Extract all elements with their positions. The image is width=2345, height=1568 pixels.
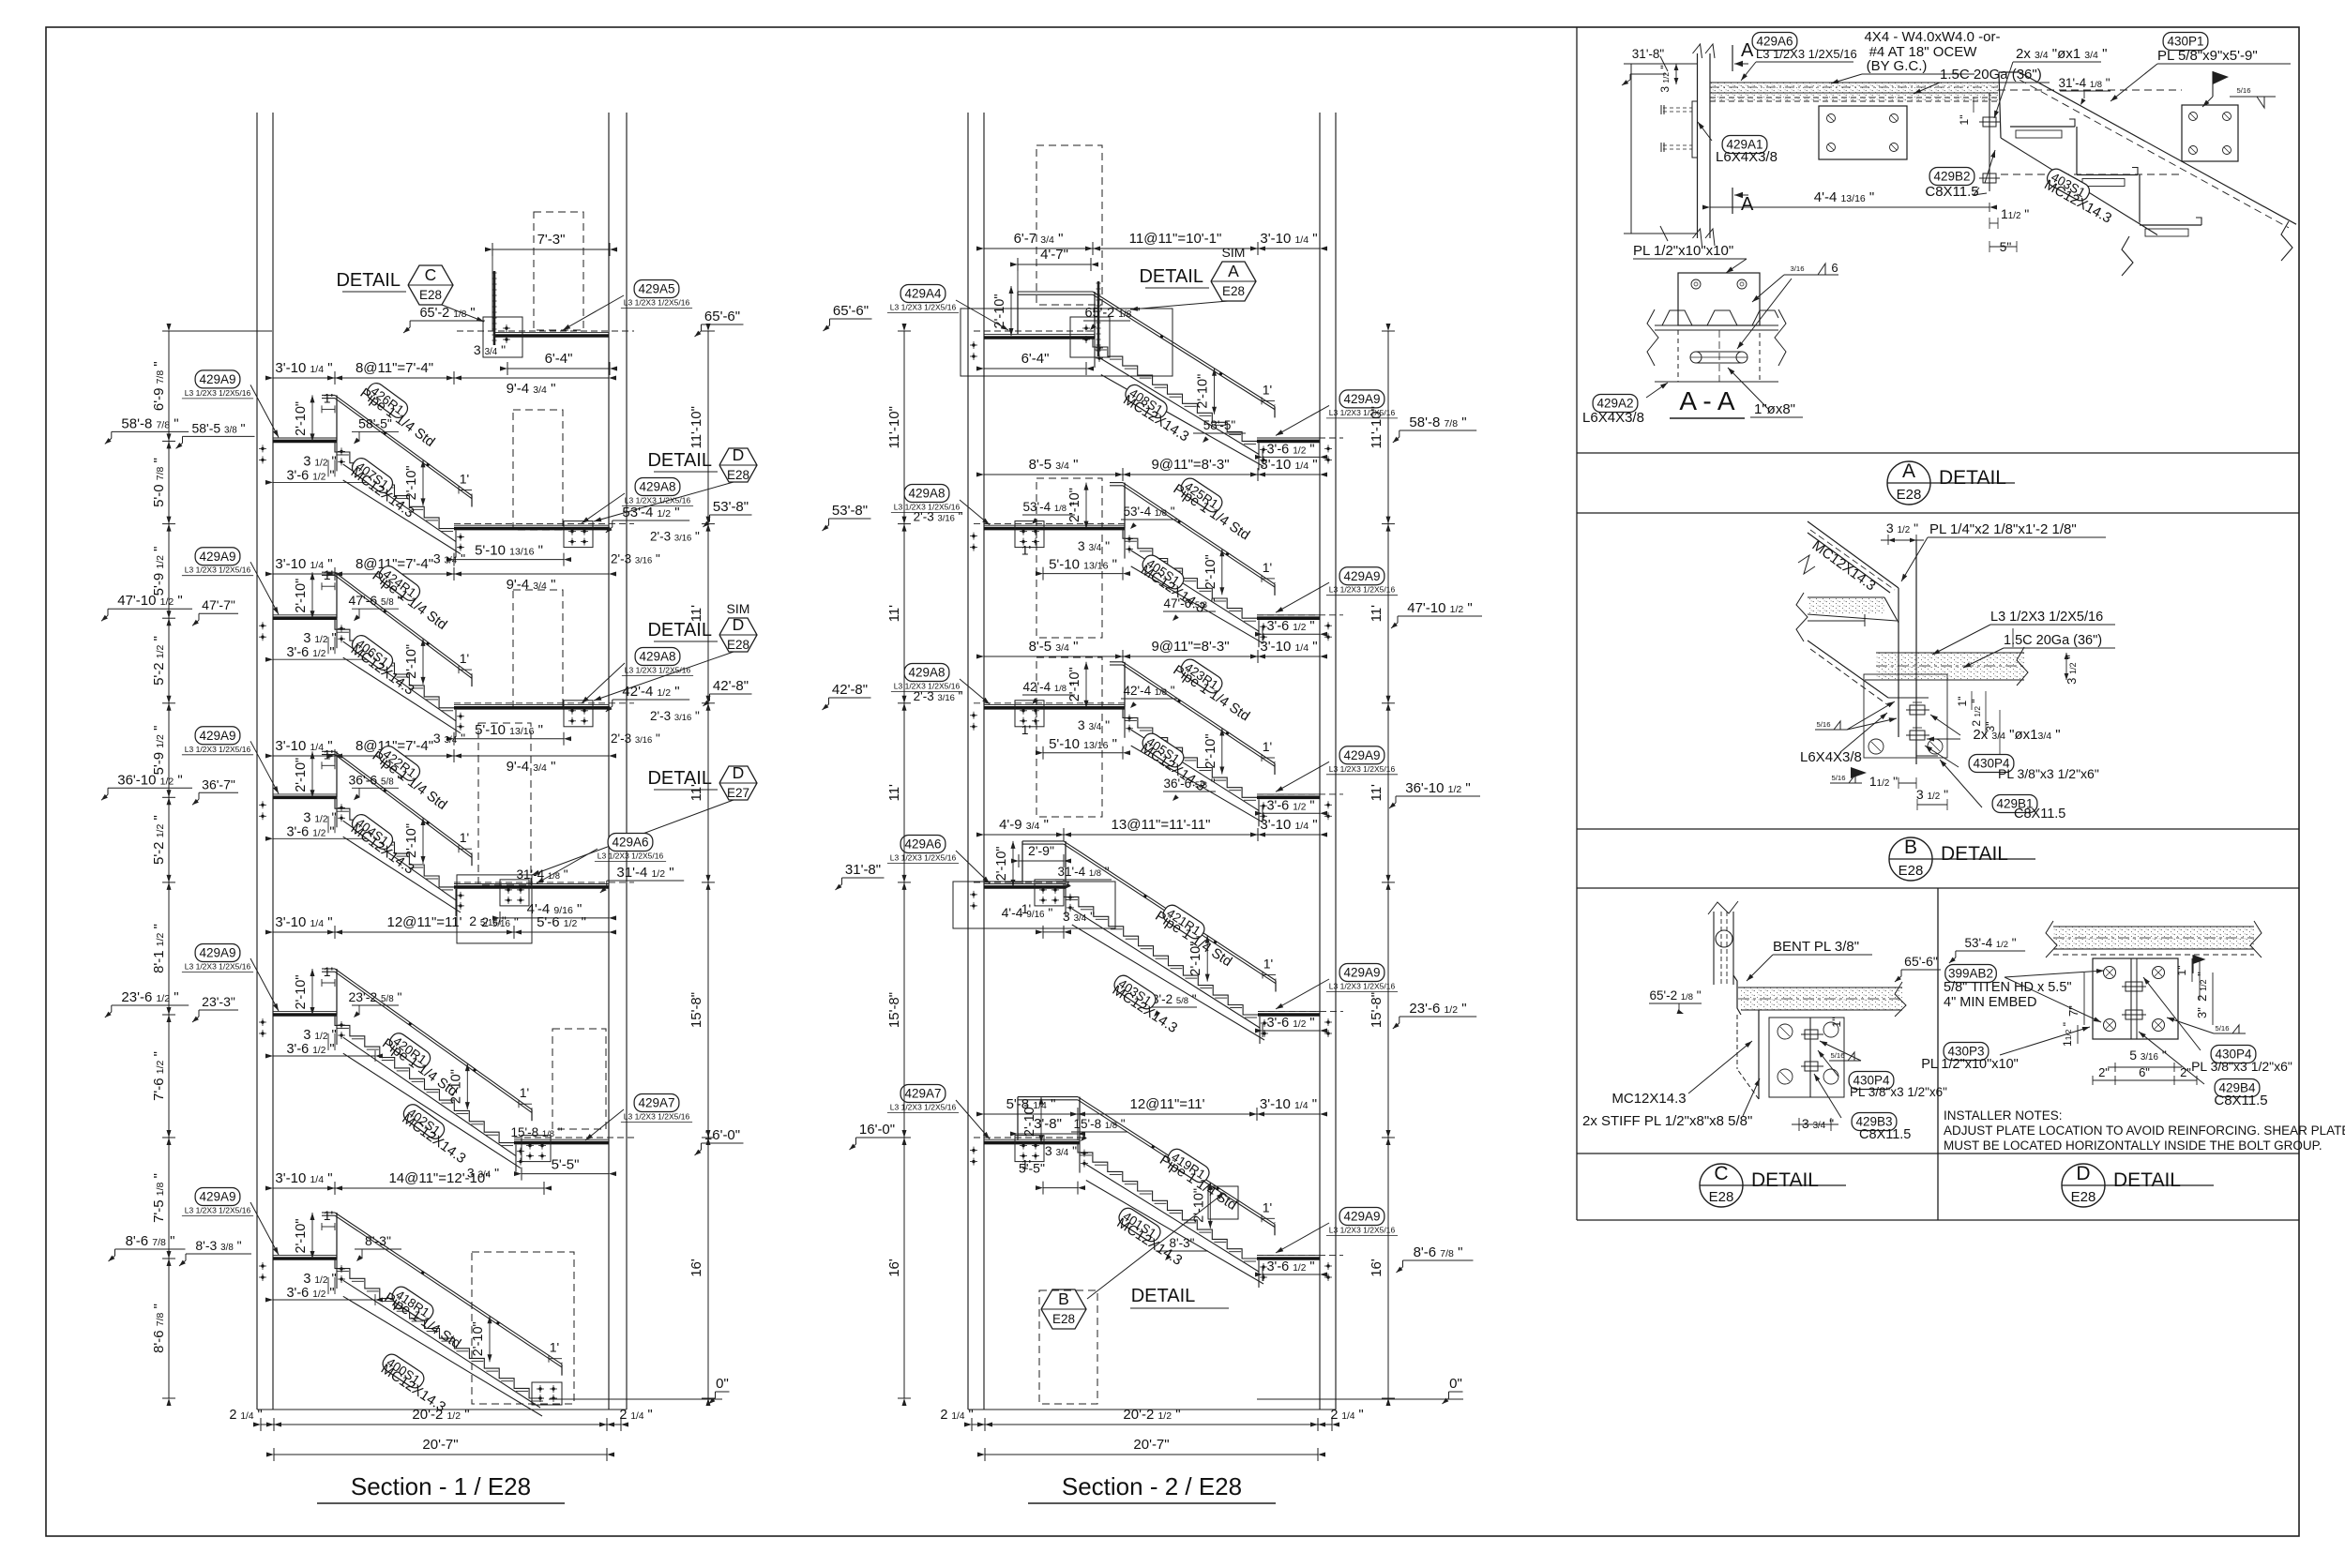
- svg-text:1": 1": [1956, 697, 1969, 707]
- svg-text:429A9: 429A9: [199, 550, 235, 564]
- svg-text:429A7: 429A7: [638, 1096, 674, 1110]
- svg-text:1': 1': [520, 1085, 529, 1100]
- svg-text:65'-2 1/8 ": 65'-2 1/8 ": [1649, 988, 1701, 1003]
- svg-text:1': 1': [550, 1340, 559, 1355]
- svg-text:16'-0": 16'-0": [704, 1127, 740, 1143]
- svg-text:E28: E28: [2071, 1189, 2096, 1205]
- svg-text:D: D: [733, 763, 745, 782]
- svg-text:31'-4 1/8 ": 31'-4 1/8 ": [516, 867, 567, 882]
- svg-text:429A9: 429A9: [199, 1190, 235, 1204]
- svg-text:MC12X14.3: MC12X14.3: [1611, 1091, 1686, 1107]
- svg-text:20'-2 1/2 ": 20'-2 1/2 ": [1123, 1407, 1180, 1423]
- svg-text:L3 1/2X3 1/2X5/16: L3 1/2X3 1/2X5/16: [624, 298, 690, 308]
- svg-text:2'-10": 2'-10": [404, 465, 419, 500]
- svg-text:B: B: [1904, 837, 1917, 858]
- svg-text:15'-8 1/8 ": 15'-8 1/8 ": [1073, 1117, 1125, 1131]
- svg-text:L3 1/2X3 1/2X5/16: L3 1/2X3 1/2X5/16: [625, 496, 691, 505]
- svg-text:31'-4 1/2 ": 31'-4 1/2 ": [616, 865, 673, 881]
- svg-text:42'-8": 42'-8": [832, 682, 868, 698]
- svg-text:9'-4 3/4 ": 9'-4 3/4 ": [507, 759, 556, 775]
- svg-text:53'-4 1/2 ": 53'-4 1/2 ": [622, 505, 679, 520]
- svg-text:47'-7": 47'-7": [202, 597, 235, 612]
- svg-text:429A8: 429A8: [639, 650, 675, 664]
- svg-text:14@11"=12'-10": 14@11"=12'-10": [388, 1170, 490, 1186]
- svg-text:L3 1/2X3 1/2X5/16: L3 1/2X3 1/2X5/16: [1756, 47, 1857, 61]
- svg-text:429A9: 429A9: [199, 946, 235, 960]
- svg-text:1': 1': [1021, 543, 1031, 558]
- svg-text:1': 1': [324, 964, 333, 979]
- svg-text:3'-10 1/4 ": 3'-10 1/4 ": [1260, 457, 1317, 473]
- svg-text:429A8: 429A8: [639, 480, 675, 494]
- svg-text:6'-9 7/8 ": 6'-9 7/8 ": [151, 361, 167, 411]
- svg-text:11': 11': [1369, 784, 1384, 802]
- svg-text:36'-10 1/2 ": 36'-10 1/2 ": [1405, 780, 1471, 796]
- svg-text:429A9: 429A9: [199, 372, 235, 386]
- svg-text:3'-6 1/2 ": 3'-6 1/2 ": [286, 645, 334, 660]
- svg-text:PL 1/2"x10"x10": PL 1/2"x10"x10": [1921, 1057, 2019, 1072]
- svg-text:58'-5 3/8 ": 58'-5 3/8 ": [191, 420, 245, 435]
- svg-text:D: D: [2076, 1163, 2090, 1184]
- svg-text:L3 1/2X3 1/2X5/16: L3 1/2X3 1/2X5/16: [1329, 408, 1396, 417]
- svg-text:3'-6 1/2 ": 3'-6 1/2 ": [286, 824, 334, 839]
- svg-text:3": 3": [2195, 1007, 2209, 1018]
- svg-text:11': 11': [688, 784, 704, 802]
- svg-text:3'-10 1/4 ": 3'-10 1/4 ": [1260, 231, 1317, 247]
- svg-text:C8X11.5: C8X11.5: [1925, 184, 1978, 200]
- svg-text:1': 1': [324, 1208, 333, 1223]
- svg-text:12@11"=11': 12@11"=11': [386, 914, 461, 930]
- svg-text:L3 1/2X3 1/2X5/16: L3 1/2X3 1/2X5/16: [185, 388, 251, 398]
- svg-text:A - A: A - A: [1679, 386, 1734, 415]
- svg-text:53'-8": 53'-8": [832, 503, 868, 519]
- svg-text:ADJUST PLATE LOCATION TO AVOID: ADJUST PLATE LOCATION TO AVOID REINFORCI…: [1944, 1123, 2345, 1138]
- svg-text:5/16: 5/16: [1817, 720, 1831, 729]
- svg-text:SIM: SIM: [1222, 245, 1246, 260]
- svg-text:11': 11': [688, 605, 704, 623]
- svg-text:429A6: 429A6: [612, 836, 648, 850]
- svg-text:1': 1': [460, 830, 469, 845]
- svg-text:11@11"=10'-1": 11@11"=10'-1": [1129, 231, 1222, 247]
- svg-text:23'-6 1/2 ": 23'-6 1/2 ": [1409, 1001, 1466, 1017]
- svg-text:16': 16': [886, 1259, 902, 1277]
- svg-text:3'-6 1/2 ": 3'-6 1/2 ": [286, 1042, 334, 1057]
- svg-text:5'-9 1/2 ": 5'-9 1/2 ": [151, 726, 167, 776]
- svg-text:2'-10": 2'-10": [404, 823, 419, 858]
- svg-text:2": 2": [2098, 1065, 2110, 1079]
- svg-text:C8X11.5: C8X11.5: [1859, 1127, 1911, 1142]
- svg-text:53'-4 1/2 ": 53'-4 1/2 ": [1964, 936, 2016, 950]
- svg-text:11'-10": 11'-10": [886, 406, 902, 448]
- svg-text:E28: E28: [1052, 1312, 1075, 1326]
- svg-text:2'-10": 2'-10": [294, 758, 309, 792]
- svg-text:11': 11': [1369, 605, 1384, 623]
- svg-text:1': 1': [1021, 722, 1031, 737]
- svg-text:E28: E28: [1709, 1189, 1734, 1205]
- svg-text:C8X11.5: C8X11.5: [2214, 1093, 2267, 1108]
- svg-text:2'-10": 2'-10": [294, 401, 309, 436]
- svg-text:6: 6: [1831, 261, 1838, 275]
- svg-text:15'-8": 15'-8": [688, 992, 704, 1028]
- svg-text:L3 1/2X3 1/2X5/16: L3 1/2X3 1/2X5/16: [185, 962, 251, 972]
- svg-text:5'-2 1/2 ": 5'-2 1/2 ": [151, 636, 167, 686]
- svg-text:INSTALLER NOTES:: INSTALLER NOTES:: [1944, 1108, 2063, 1123]
- svg-text:42'-4 1/8 ": 42'-4 1/8 ": [1022, 680, 1074, 694]
- svg-text:DETAIL: DETAIL: [1941, 843, 2008, 865]
- svg-text:4'-9 3/4 ": 4'-9 3/4 ": [999, 817, 1049, 833]
- svg-text:Section - 2 / E28: Section - 2 / E28: [1062, 1472, 1242, 1500]
- svg-text:16': 16': [688, 1259, 704, 1277]
- svg-text:42'-4 1/2 ": 42'-4 1/2 ": [622, 684, 679, 700]
- svg-text:B: B: [1058, 1289, 1069, 1308]
- svg-text:36'-7": 36'-7": [202, 776, 235, 792]
- svg-text:5/8" TITEN HD x 5.5": 5/8" TITEN HD x 5.5": [1944, 980, 2072, 995]
- svg-text:0": 0": [716, 1376, 729, 1392]
- svg-text:11'-10": 11'-10": [1369, 406, 1384, 448]
- svg-text:0": 0": [1449, 1376, 1462, 1392]
- svg-text:5'-5": 5'-5": [552, 1157, 580, 1173]
- svg-text:65'-2 1/8 ": 65'-2 1/8 ": [419, 306, 475, 321]
- svg-text:3'-10 1/4 ": 3'-10 1/4 ": [275, 360, 332, 376]
- svg-text:31'-4 1/8 ": 31'-4 1/8 ": [1057, 865, 1109, 879]
- svg-text:D: D: [733, 445, 745, 464]
- svg-text:5'-8 1/4 ": 5'-8 1/4 ": [1006, 1096, 1056, 1112]
- svg-text:6'-4": 6'-4": [545, 351, 573, 367]
- svg-text:1': 1': [1263, 382, 1272, 397]
- svg-text:429A7: 429A7: [904, 1087, 941, 1101]
- svg-text:L6X4X3/8: L6X4X3/8: [1582, 410, 1644, 426]
- svg-text:31'-8": 31'-8": [1632, 47, 1665, 61]
- svg-text:2'-10": 2'-10": [471, 1321, 486, 1356]
- svg-text:2 1/2 ": 2 1/2 ": [1970, 699, 1983, 726]
- svg-text:DETAIL: DETAIL: [1939, 467, 2006, 489]
- svg-text:5'-0 7/8 ": 5'-0 7/8 ": [151, 458, 167, 507]
- svg-text:4X4 - W4.0xW4.0 -or-: 4X4 - W4.0xW4.0 -or-: [1864, 29, 2000, 45]
- svg-text:5/16: 5/16: [2216, 1024, 2230, 1033]
- svg-text:429A6: 429A6: [904, 837, 941, 852]
- svg-text:L3 1/2X3 1/2X5/16: L3 1/2X3 1/2X5/16: [1329, 585, 1396, 595]
- svg-text:L3 1/2X3 1/2X5/16: L3 1/2X3 1/2X5/16: [624, 1112, 690, 1122]
- svg-text:430P1: 430P1: [2167, 35, 2203, 49]
- svg-text:2'-10": 2'-10": [994, 846, 1009, 881]
- svg-text:3/16: 3/16: [1791, 264, 1805, 273]
- svg-text:L3 1/2X3 1/2X5/16: L3 1/2X3 1/2X5/16: [185, 1206, 251, 1215]
- svg-text:3 1/2 ": 3 1/2 ": [1658, 65, 1672, 92]
- svg-text:3'-8": 3'-8": [1034, 1116, 1062, 1132]
- svg-text:429A9: 429A9: [199, 729, 235, 743]
- svg-text:429B2: 429B2: [1933, 170, 1970, 184]
- svg-text:3'-10 1/4 ": 3'-10 1/4 ": [275, 556, 332, 572]
- svg-text:5'-9 1/2 ": 5'-9 1/2 ": [151, 546, 167, 596]
- svg-text:9@11"=8'-3": 9@11"=8'-3": [1151, 457, 1229, 473]
- svg-text:3'-10 1/4 ": 3'-10 1/4 ": [275, 1170, 332, 1186]
- svg-text:8'-5 3/4 ": 8'-5 3/4 ": [1029, 639, 1079, 655]
- svg-text:8'-5 3/4 ": 8'-5 3/4 ": [1029, 457, 1079, 473]
- svg-text:PL 1/2"x10"x10": PL 1/2"x10"x10": [1633, 243, 1733, 259]
- svg-text:47'-10 1/2 ": 47'-10 1/2 ": [1407, 600, 1473, 616]
- svg-text:1.5C 20Ga (36"): 1.5C 20Ga (36"): [2004, 633, 2102, 648]
- svg-text:DETAIL: DETAIL: [647, 450, 712, 471]
- svg-text:C: C: [1714, 1163, 1728, 1184]
- svg-text:A: A: [1741, 194, 1754, 215]
- svg-text:65'-6": 65'-6": [704, 309, 740, 324]
- svg-text:58'-8 7/8 ": 58'-8 7/8 ": [1409, 415, 1466, 430]
- svg-text:12@11"=11': 12@11"=11': [1129, 1096, 1204, 1112]
- svg-text:PL 3/8"x3 1/2"x6": PL 3/8"x3 1/2"x6": [1850, 1085, 1947, 1099]
- svg-text:1"øx8": 1"øx8": [1754, 401, 1795, 417]
- svg-text:11'-10": 11'-10": [688, 406, 704, 448]
- svg-text:5'-2 1/2 ": 5'-2 1/2 ": [151, 815, 167, 865]
- svg-text:1': 1': [1263, 957, 1273, 972]
- svg-text:20'-7": 20'-7": [1133, 1437, 1169, 1453]
- svg-text:DETAIL: DETAIL: [1131, 1286, 1196, 1306]
- svg-text:11': 11': [886, 784, 902, 802]
- svg-text:13@11"=11'-11": 13@11"=11'-11": [1112, 817, 1211, 833]
- svg-text:8'-6 7/8 ": 8'-6 7/8 ": [1414, 1244, 1463, 1260]
- svg-text:429A2: 429A2: [1596, 397, 1633, 411]
- svg-text:PL 1/4"x2 1/8"x1'-2 1/8": PL 1/4"x2 1/8"x1'-2 1/8": [1929, 521, 2077, 537]
- svg-text:L3 1/2X3 1/2X5/16: L3 1/2X3 1/2X5/16: [890, 853, 957, 863]
- svg-text:3'-6 1/2 ": 3'-6 1/2 ": [286, 1286, 334, 1301]
- svg-text:L6X4X3/8: L6X4X3/8: [1716, 149, 1778, 165]
- svg-text:3'-6 1/2 ": 3'-6 1/2 ": [1266, 442, 1314, 457]
- svg-text:L3 1/2X3 1/2X5/16: L3 1/2X3 1/2X5/16: [185, 745, 251, 754]
- svg-text:20'-2 1/2 ": 20'-2 1/2 ": [412, 1407, 469, 1423]
- svg-text:2'-10": 2'-10": [294, 975, 309, 1010]
- svg-text:4" MIN EMBED: 4" MIN EMBED: [1944, 995, 2036, 1010]
- svg-text:L3 1/2X3 1/2X5/16: L3 1/2X3 1/2X5/16: [185, 565, 251, 575]
- svg-text:8'-1 1/2 ": 8'-1 1/2 ": [151, 924, 167, 973]
- svg-text:31'-4 1/8 ": 31'-4 1/8 ": [2058, 76, 2110, 90]
- svg-text:L3 1/2X3 1/2X5/16: L3 1/2X3 1/2X5/16: [598, 852, 664, 861]
- svg-text:2'-10": 2'-10": [404, 644, 419, 679]
- svg-text:65'-6": 65'-6": [833, 303, 869, 319]
- svg-text:3'-6 1/2 ": 3'-6 1/2 ": [1266, 619, 1314, 634]
- svg-text:2'-10": 2'-10": [1203, 554, 1218, 589]
- svg-text:399AB2: 399AB2: [1948, 967, 1993, 981]
- svg-text:3'-6 1/2 ": 3'-6 1/2 ": [286, 468, 334, 483]
- svg-text:3'-10 1/4 ": 3'-10 1/4 ": [275, 914, 332, 930]
- svg-text:4'-7": 4'-7": [1040, 247, 1068, 263]
- svg-text:1.5C 20Ga (36"): 1.5C 20Ga (36"): [1940, 67, 2042, 83]
- svg-text:5'-6 1/2 ": 5'-6 1/2 ": [537, 914, 586, 930]
- svg-text:L6X4X3/8: L6X4X3/8: [1800, 749, 1862, 765]
- svg-text:PL 3/8"x3 1/2"x6": PL 3/8"x3 1/2"x6": [1998, 766, 2099, 781]
- svg-text:6'-7 3/4 ": 6'-7 3/4 ": [1014, 231, 1064, 247]
- svg-text:7": 7": [2066, 1005, 2080, 1017]
- svg-text:9'-4 3/4 ": 9'-4 3/4 ": [507, 381, 556, 397]
- svg-text:1': 1': [1263, 1199, 1272, 1214]
- svg-text:429A9: 429A9: [1343, 1210, 1380, 1224]
- svg-text:1": 1": [1958, 115, 1971, 126]
- svg-text:DETAIL: DETAIL: [1751, 1169, 1819, 1191]
- svg-text:1': 1': [1263, 739, 1272, 754]
- svg-text:11': 11': [886, 605, 902, 623]
- svg-text:16'-0": 16'-0": [859, 1122, 895, 1138]
- svg-text:L3 1/2X3 1/2X5/16: L3 1/2X3 1/2X5/16: [890, 303, 957, 312]
- svg-text:1': 1': [460, 472, 469, 487]
- svg-text:15'-8": 15'-8": [1369, 992, 1384, 1028]
- svg-text:23'-3": 23'-3": [202, 994, 235, 1009]
- svg-text:C8X11.5: C8X11.5: [2014, 807, 2065, 822]
- svg-text:429A9: 429A9: [1343, 966, 1380, 980]
- svg-text:3'-10 1/4 ": 3'-10 1/4 ": [1260, 639, 1317, 655]
- svg-text:L3 1/2X3 1/2X5/16: L3 1/2X3 1/2X5/16: [1329, 764, 1396, 774]
- svg-text:53'-8": 53'-8": [713, 499, 749, 515]
- svg-text:1': 1': [1263, 560, 1272, 575]
- svg-text:7'-5 1/8 ": 7'-5 1/8 ": [151, 1173, 167, 1223]
- svg-text:53'-4 1/8 ": 53'-4 1/8 ": [1123, 505, 1174, 519]
- svg-text:E27: E27: [727, 786, 749, 800]
- svg-text:L3 1/2X3 1/2X5/16: L3 1/2X3 1/2X5/16: [890, 1103, 957, 1112]
- svg-text:3'-6 1/2 ": 3'-6 1/2 ": [1266, 1259, 1314, 1274]
- svg-text:429A5: 429A5: [638, 282, 674, 296]
- svg-text:42'-4 1/8 ": 42'-4 1/8 ": [1123, 684, 1174, 698]
- svg-text:8'-3 3/8 ": 8'-3 3/8 ": [195, 1238, 241, 1253]
- svg-text:1": 1": [1830, 1018, 1843, 1028]
- svg-text:5/16: 5/16: [2237, 86, 2251, 95]
- svg-text:53'-4 1/8 ": 53'-4 1/8 ": [1022, 500, 1074, 514]
- svg-text:2'-10": 2'-10": [1203, 734, 1218, 769]
- svg-text:9'-4 3/4 ": 9'-4 3/4 ": [507, 577, 556, 593]
- svg-text:L3 1/2X3 1/2X5/16: L3 1/2X3 1/2X5/16: [1990, 610, 2103, 625]
- svg-text:E28: E28: [727, 638, 749, 652]
- svg-text:15'-8 1/8 ": 15'-8 1/8 ": [510, 1125, 562, 1139]
- svg-text:L3 1/2X3 1/2X5/16: L3 1/2X3 1/2X5/16: [1329, 1226, 1396, 1235]
- svg-text:L3 1/2X3 1/2X5/16: L3 1/2X3 1/2X5/16: [1329, 982, 1396, 991]
- svg-text:8@11"=7'-4": 8@11"=7'-4": [356, 360, 433, 376]
- svg-text:E28: E28: [1899, 863, 1924, 879]
- svg-text:9@11"=8'-3": 9@11"=8'-3": [1151, 639, 1229, 655]
- svg-text:1": 1": [2175, 966, 2188, 976]
- svg-text:5/16: 5/16: [1832, 774, 1846, 782]
- svg-text:6'-4": 6'-4": [1021, 351, 1050, 367]
- svg-text:BENT PL 3/8": BENT PL 3/8": [1773, 939, 1859, 955]
- svg-text:429A9: 429A9: [1343, 569, 1380, 583]
- svg-text:65'-2 1/8 ": 65'-2 1/8 ": [1084, 306, 1140, 321]
- svg-text:SIM: SIM: [727, 601, 750, 616]
- svg-text:429A8: 429A8: [908, 487, 945, 501]
- svg-text:15'-8": 15'-8": [886, 992, 902, 1028]
- svg-text:16': 16': [1369, 1259, 1384, 1277]
- svg-text:47'-10 1/2 ": 47'-10 1/2 ": [117, 593, 183, 609]
- svg-text:2'-9": 2'-9": [1028, 843, 1054, 858]
- svg-text:3'-10 1/4 ": 3'-10 1/4 ": [1260, 1096, 1317, 1112]
- svg-text:E28: E28: [1897, 487, 1922, 503]
- svg-text:8'-3": 8'-3": [365, 1233, 391, 1248]
- svg-text:MUST BE LOCATED HORIZONTALLY I: MUST BE LOCATED HORIZONTALLY INSIDE THE …: [1944, 1138, 2322, 1153]
- svg-text:23'-2 5/8 ": 23'-2 5/8 ": [348, 989, 401, 1004]
- svg-text:2x STIFF PL 1/2"x8"x8 5/8": 2x STIFF PL 1/2"x8"x8 5/8": [1582, 1113, 1752, 1129]
- svg-text:429A4: 429A4: [904, 287, 942, 301]
- svg-text:429A9: 429A9: [1343, 748, 1380, 762]
- svg-text:2'-10": 2'-10": [992, 294, 1007, 329]
- svg-text:65'-6": 65'-6": [1904, 954, 1938, 969]
- svg-text:DETAIL: DETAIL: [1139, 266, 1203, 287]
- svg-text:DETAIL: DETAIL: [2113, 1169, 2181, 1191]
- svg-text:E28: E28: [1222, 284, 1245, 298]
- svg-text:7'-6 1/2 ": 7'-6 1/2 ": [151, 1051, 167, 1101]
- svg-text:3'-10 1/4 ": 3'-10 1/4 ": [1260, 817, 1317, 833]
- svg-text:E28: E28: [419, 288, 442, 302]
- svg-text:1': 1': [460, 651, 469, 666]
- svg-text:(BY G.C.): (BY G.C.): [1867, 58, 1928, 74]
- svg-text:8'-6 7/8 ": 8'-6 7/8 ": [126, 1233, 175, 1249]
- svg-text:7'-3": 7'-3": [537, 232, 566, 248]
- svg-text:1': 1': [324, 390, 333, 405]
- svg-text:Section - 1 / E28: Section - 1 / E28: [351, 1472, 531, 1500]
- svg-text:42'-8": 42'-8": [713, 678, 749, 694]
- svg-text:3'-10 1/4 ": 3'-10 1/4 ": [275, 738, 332, 754]
- svg-text:429A8: 429A8: [908, 666, 945, 680]
- svg-text:31'-8": 31'-8": [845, 862, 881, 878]
- svg-text:36'-10 1/2 ": 36'-10 1/2 ": [117, 772, 183, 788]
- svg-text:L3 1/2X3 1/2X5/16: L3 1/2X3 1/2X5/16: [894, 682, 961, 691]
- svg-text:D: D: [733, 615, 745, 634]
- svg-text:3'-6 1/2 ": 3'-6 1/2 ": [1266, 1016, 1314, 1031]
- svg-text:6": 6": [2139, 1065, 2150, 1079]
- svg-text:DETAIL: DETAIL: [336, 270, 401, 291]
- svg-text:5/16: 5/16: [1831, 1051, 1845, 1060]
- svg-text:20'-7": 20'-7": [422, 1437, 458, 1453]
- svg-text:L3 1/2X3 1/2X5/16: L3 1/2X3 1/2X5/16: [894, 503, 961, 512]
- svg-text:429A9: 429A9: [1343, 392, 1380, 406]
- svg-text:A: A: [1228, 262, 1239, 280]
- svg-text:2'-10": 2'-10": [294, 579, 309, 613]
- svg-text:C: C: [425, 265, 437, 284]
- svg-text:2'-10": 2'-10": [294, 1219, 309, 1254]
- svg-text:2'-10": 2'-10": [1196, 374, 1211, 409]
- svg-text:E28: E28: [727, 468, 749, 482]
- svg-text:58'-8 7/8 ": 58'-8 7/8 ": [121, 415, 178, 431]
- svg-text:8'-6 7/8 ": 8'-6 7/8 ": [151, 1304, 167, 1353]
- svg-text:PL 3/8"x3 1/2"x6": PL 3/8"x3 1/2"x6": [2191, 1059, 2292, 1074]
- svg-text:L3 1/2X3 1/2X5/16: L3 1/2X3 1/2X5/16: [625, 666, 691, 675]
- svg-text:23'-6 1/2 ": 23'-6 1/2 ": [121, 989, 178, 1005]
- svg-text:5'-5": 5'-5": [1019, 1161, 1045, 1176]
- svg-text:58'-5": 58'-5": [1203, 418, 1236, 432]
- svg-text:PL 5/8"x9"x5'-9": PL 5/8"x9"x5'-9": [2157, 48, 2258, 64]
- svg-text:3'-6 1/2 ": 3'-6 1/2 ": [1266, 798, 1314, 813]
- svg-text:A: A: [1902, 460, 1915, 482]
